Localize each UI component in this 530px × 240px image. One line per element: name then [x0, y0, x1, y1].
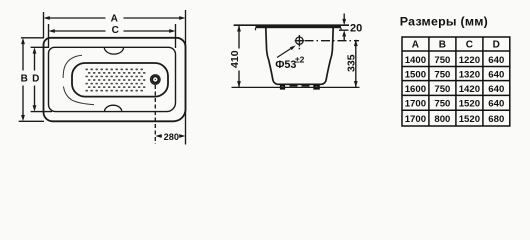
svg-text:680: 680	[488, 114, 504, 125]
svg-text:B: B	[21, 74, 28, 85]
svg-text:1700: 1700	[405, 114, 426, 125]
svg-text:C: C	[112, 25, 119, 36]
svg-text:A: A	[111, 14, 118, 25]
svg-text:750: 750	[434, 69, 450, 80]
svg-text:1500: 1500	[405, 69, 426, 80]
svg-text:640: 640	[488, 84, 504, 95]
svg-text:1220: 1220	[459, 55, 480, 66]
svg-text:Ф53: Ф53	[275, 59, 296, 71]
svg-text:A: A	[412, 40, 419, 51]
svg-text:750: 750	[434, 84, 450, 95]
svg-text:1520: 1520	[459, 114, 480, 125]
svg-text:Размеры (мм): Размеры (мм)	[400, 15, 488, 29]
svg-text:640: 640	[488, 69, 504, 80]
svg-text:D: D	[32, 74, 39, 85]
svg-text:1520: 1520	[459, 99, 480, 110]
svg-text:±2: ±2	[295, 55, 305, 65]
svg-text:20: 20	[350, 23, 362, 35]
svg-text:1400: 1400	[405, 55, 426, 66]
svg-text:410: 410	[229, 50, 241, 68]
svg-text:335: 335	[345, 54, 357, 72]
svg-text:1420: 1420	[459, 84, 480, 95]
svg-text:640: 640	[488, 99, 504, 110]
svg-text:750: 750	[434, 99, 450, 110]
svg-text:280: 280	[164, 132, 179, 142]
svg-text:C: C	[466, 40, 473, 51]
svg-text:1320: 1320	[459, 69, 480, 80]
svg-text:B: B	[439, 40, 446, 51]
svg-text:750: 750	[434, 55, 450, 66]
svg-text:1700: 1700	[405, 99, 426, 110]
svg-text:D: D	[493, 40, 500, 51]
svg-text:640: 640	[488, 55, 504, 66]
svg-text:800: 800	[434, 114, 450, 125]
svg-text:1600: 1600	[405, 84, 426, 95]
